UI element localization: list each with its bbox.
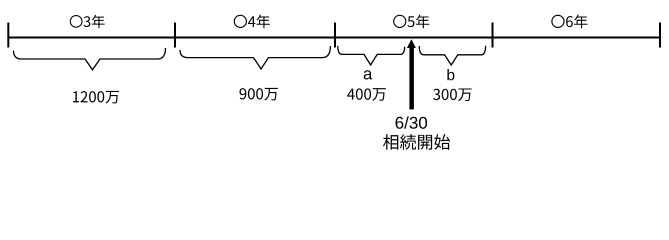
label b <box>447 69 454 80</box>
arrow inheritance start <box>407 39 416 109</box>
label 900man <box>240 88 278 101</box>
tick year4 start <box>174 23 176 48</box>
label date 6/30 <box>396 116 428 128</box>
label year 3 <box>70 15 105 28</box>
tick year3 start <box>7 23 9 48</box>
label year 4 <box>234 15 270 29</box>
tick year6 start <box>492 23 494 48</box>
brace 900man <box>180 46 330 69</box>
label 400man <box>347 88 386 101</box>
tick year5 start <box>334 23 336 48</box>
timeline axis <box>8 37 660 39</box>
label souzoku kaishi <box>383 134 450 150</box>
label a <box>364 70 373 79</box>
label year 6 <box>551 15 587 29</box>
brace 1200man <box>14 48 166 70</box>
label year 5 <box>393 15 429 29</box>
label 300man <box>433 88 472 101</box>
label 1200man <box>73 91 119 104</box>
tick year6 end <box>659 23 661 48</box>
brace b <box>419 46 485 65</box>
brace a <box>338 46 405 65</box>
